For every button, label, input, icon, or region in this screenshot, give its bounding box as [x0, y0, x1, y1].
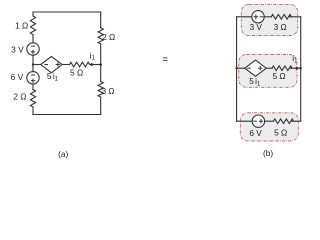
resistor R3 5ohm (a)	[70, 62, 90, 67]
resistor 5ohm bottom (b)	[274, 119, 294, 124]
wire middle branch left (b)	[237, 67, 245, 69]
source V2 6V	[27, 72, 39, 84]
resistor R1 1ohm (left top)	[30, 16, 35, 35]
wire bottom branch left (b)	[237, 120, 253, 122]
svg-text:2 Ω: 2 Ω	[102, 32, 115, 42]
right rail of (b)	[300, 17, 302, 121]
wire top branch left (b)	[237, 16, 252, 18]
wire diamond to 5ohm (b)	[266, 67, 272, 69]
resistor R5 3ohm (right bottom)	[98, 82, 103, 98]
source 6V (b)	[252, 115, 264, 127]
minus of 3V	[32, 45, 35, 47]
junction dot right middle (b)	[300, 67, 302, 69]
wire 6V to 2ohm	[32, 84, 34, 90]
svg-text:(b): (b)	[263, 148, 273, 158]
svg-text:5 Ω: 5 Ω	[274, 128, 287, 138]
arrow current i1 (b)	[296, 67, 300, 70]
resistor R4 2ohm (right top)	[98, 28, 103, 44]
highlight box middle (b)	[239, 55, 297, 88]
svg-text:6 V: 6 V	[11, 72, 24, 82]
right rail of (a)	[100, 12, 102, 115]
wire 6V to 5ohm bottom (b)	[265, 120, 274, 122]
svg-text:2 Ω: 2 Ω	[13, 92, 26, 102]
highlight box top (b)	[241, 4, 297, 35]
plus inside diamond (a)	[56, 63, 59, 66]
svg-text:3 Ω: 3 Ω	[274, 22, 287, 32]
plus inside diamond (b)	[259, 67, 262, 70]
plus of 3V (b)	[254, 15, 257, 18]
highlight box bottom (b)	[240, 113, 298, 141]
wire 5ohm to right rail bottom (b)	[292, 120, 301, 122]
svg-text:3 V: 3 V	[249, 22, 262, 32]
source 3V (b)	[252, 11, 264, 23]
dependent source 5i1 diamond (a)	[41, 56, 62, 72]
svg-text:i1: i1	[292, 53, 298, 64]
wire 5ohm to right rail	[90, 64, 101, 66]
svg-text:i1: i1	[90, 50, 96, 61]
source V1 3V	[27, 43, 39, 55]
plus of 3V	[31, 50, 34, 53]
svg-text:5 Ω: 5 Ω	[70, 67, 83, 77]
minus inside diamond (b)	[248, 67, 251, 69]
wire 3ohm to right rail (b)	[289, 16, 300, 18]
wire bottom of (a)	[33, 114, 101, 116]
wire 5ohm to right rail middle (b)	[290, 67, 301, 69]
minus of 6V (b)	[254, 120, 257, 122]
equals sign	[163, 58, 168, 61]
wire diamond to 5ohm	[62, 64, 69, 66]
svg-text:5 Ω: 5 Ω	[272, 71, 285, 81]
wire 2ohm to bottom	[32, 107, 34, 115]
wire left rail top lead	[32, 12, 34, 16]
minus of 6V	[32, 74, 35, 76]
minus of 3V (b)	[260, 16, 263, 18]
left rail of (b)	[236, 17, 238, 121]
junction dot (a)	[99, 63, 102, 66]
resistor 3ohm (b)	[271, 14, 291, 19]
wire 3V to 3ohm (b)	[264, 16, 271, 18]
node A junction dot	[32, 63, 34, 65]
svg-text:1 Ω: 1 Ω	[15, 21, 28, 31]
wire 1ohm to 3V	[32, 35, 34, 43]
resistor 5ohm middle (b)	[272, 66, 292, 71]
plus of 6V	[31, 79, 34, 82]
wire 3V to 6V	[32, 55, 34, 71]
node A wire to diamond	[33, 64, 41, 66]
svg-text:5i1: 5i1	[47, 71, 59, 83]
wire top of (a)	[33, 11, 101, 13]
svg-text:3 V: 3 V	[11, 44, 24, 54]
svg-text:3 Ω: 3 Ω	[101, 86, 114, 96]
plus of 6V (b)	[259, 120, 262, 123]
dependent source 5i1 diamond (b)	[245, 60, 266, 76]
svg-text:6 V: 6 V	[249, 128, 262, 138]
resistor R2 2ohm (left bottom)	[30, 90, 35, 108]
svg-text:(a): (a)	[58, 149, 68, 159]
arrow current i1 (a)	[91, 63, 95, 66]
junction dot left middle (b)	[235, 67, 237, 69]
minus inside diamond (a)	[45, 64, 48, 66]
